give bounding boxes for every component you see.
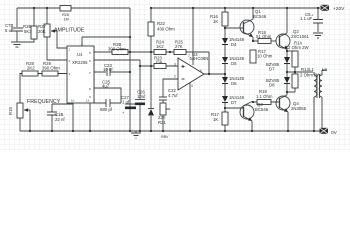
svg-text:D5: D5 [231, 61, 237, 66]
svg-text:10 Ohm: 10 Ohm [257, 54, 273, 59]
svg-text:1K: 1K [213, 19, 218, 24]
svg-text:FREQUENCY: FREQUENCY [27, 99, 61, 105]
svg-text:12: 12 [86, 99, 90, 103]
svg-text:L1: L1 [309, 67, 314, 72]
svg-text:R26: R26 [62, 13, 69, 17]
svg-text:D4: D4 [231, 42, 237, 47]
svg-text:L2: L2 [322, 67, 327, 72]
svg-text:BC546: BC546 [253, 14, 267, 19]
svg-text:R22: R22 [157, 21, 165, 26]
svg-text:3: 3 [174, 63, 176, 67]
svg-text:22 nf: 22 nf [55, 117, 65, 122]
svg-text:2 Ohm 2W: 2 Ohm 2W [288, 45, 309, 50]
svg-text:1 uf: 1 uf [122, 99, 130, 104]
svg-text:51 Ohm: 51 Ohm [256, 34, 272, 39]
svg-text:2K2: 2K2 [27, 66, 35, 71]
svg-text:4.7uf: 4.7uf [168, 93, 178, 98]
svg-text:1K: 1K [213, 117, 218, 122]
svg-text:10 uf: 10 uf [103, 67, 113, 72]
svg-text:+20V: +20V [333, 6, 345, 12]
svg-text:1K2: 1K2 [156, 44, 164, 49]
svg-text:4u7: 4u7 [102, 84, 110, 89]
svg-text:2N3055: 2N3055 [291, 106, 307, 111]
svg-text:300 Ohm: 300 Ohm [108, 47, 126, 52]
svg-text:1.1 Ohm: 1.1 Ohm [256, 94, 273, 99]
svg-text:5K3: 5K3 [24, 29, 32, 34]
svg-text:BC546: BC546 [255, 107, 269, 112]
svg-text:0V: 0V [331, 130, 338, 136]
svg-text:54HC08N: 54HC08N [190, 56, 209, 61]
svg-text:20K: 20K [38, 29, 46, 34]
svg-text:10uf: 10uf [137, 94, 146, 99]
svg-text:AMPLITUDE: AMPLITUDE [54, 28, 85, 34]
svg-text:2: 2 [174, 75, 176, 79]
svg-text:27K: 27K [175, 44, 183, 49]
svg-text:1M: 1M [64, 18, 69, 22]
svg-text:XR2206: XR2206 [72, 60, 88, 65]
svg-text:390 Ohm: 390 Ohm [42, 66, 60, 71]
svg-text:RBV: RBV [161, 135, 169, 139]
svg-text:2 Ohm 2W: 2 Ohm 2W [300, 73, 321, 78]
svg-text:7: 7 [188, 54, 190, 58]
svg-text:15K: 15K [155, 60, 163, 65]
svg-text:D8: D8 [269, 83, 275, 88]
svg-text:5 uF: 5 uF [5, 28, 14, 33]
svg-text:R21: R21 [158, 120, 166, 125]
svg-text:D7: D7 [269, 67, 275, 72]
svg-text:D6: D6 [231, 81, 237, 86]
svg-text:2SC1061: 2SC1061 [291, 34, 310, 39]
svg-text:U4: U4 [77, 52, 83, 57]
svg-text:4: 4 [191, 84, 193, 88]
svg-text:D7: D7 [231, 100, 237, 105]
svg-text:680 pf: 680 pf [100, 107, 113, 112]
svg-text:10: 10 [71, 99, 75, 103]
svg-text:R15: R15 [8, 107, 13, 115]
svg-text:430 Ohm: 430 Ohm [157, 27, 175, 32]
svg-text:6: 6 [200, 69, 202, 73]
